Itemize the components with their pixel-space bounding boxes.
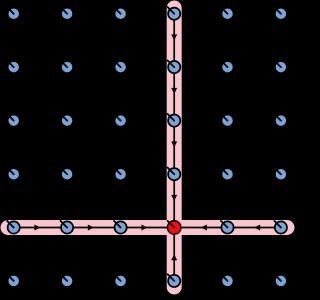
arrow A4 down (toward impurity): [171, 195, 177, 201]
spin site r6c5: [221, 274, 234, 287]
spin site r2c4: [168, 61, 181, 74]
spin site r3c5: [221, 114, 234, 127]
spin site r6c1: [7, 274, 20, 287]
arrow A10 left (toward impurity): [254, 225, 260, 231]
spin site r2c3: [114, 61, 127, 74]
spin site r3c1: [7, 114, 20, 127]
spin site r6c3: [114, 274, 127, 287]
defect band horizontal (row highlight): [8, 220, 287, 235]
arrow A9 left (toward impurity): [201, 225, 207, 231]
spin site r3c2: [61, 114, 74, 127]
spin site r1c1: [7, 7, 20, 20]
arrow A6 right (toward impurity): [34, 225, 40, 231]
spin site r2c5: [221, 61, 234, 74]
spin site r6c4: [168, 274, 181, 287]
spin site r2c2: [61, 61, 74, 74]
spin site r4c6: [274, 168, 287, 181]
arrow A8 right (toward impurity): [141, 225, 147, 231]
spin site r2c1: [7, 61, 20, 74]
spin site r4c5: [221, 168, 234, 181]
spin site r3c6: [274, 114, 287, 127]
spin site r1c6: [274, 7, 287, 20]
spin site r5c4 (impurity, red): [167, 221, 181, 235]
spin site r1c5: [221, 7, 234, 20]
spin site r6c2: [61, 274, 74, 287]
spin site r4c4: [168, 168, 181, 181]
spin site r4c3: [114, 168, 127, 181]
spin site r5c5: [221, 221, 234, 234]
axis line horizontal: [14, 227, 281, 229]
spin site r1c2: [61, 7, 74, 20]
axis line vertical: [173, 14, 175, 281]
spin site r5c3: [114, 221, 127, 234]
spin site r4c1: [7, 168, 20, 181]
arrow A3 down (toward impurity): [171, 141, 177, 147]
arrow A7 right (toward impurity): [88, 225, 94, 231]
spin site r5c2: [61, 221, 74, 234]
spin site r5c6: [274, 221, 287, 234]
defect band vertical (column highlight): [167, 8, 182, 287]
spin site r4c2: [61, 168, 74, 181]
arrow A5 up (toward impurity): [171, 254, 177, 260]
spin site r3c3: [114, 114, 127, 127]
spin site r6c6: [274, 274, 287, 287]
spin site r5c1: [7, 221, 20, 234]
spin site r3c4: [168, 114, 181, 127]
arrow A2 down (toward impurity): [171, 88, 177, 94]
arrow A1 down (toward impurity): [171, 34, 177, 40]
spin site r1c3: [114, 7, 127, 20]
spin site r1c4: [168, 7, 181, 20]
spin site r2c6: [274, 61, 287, 74]
